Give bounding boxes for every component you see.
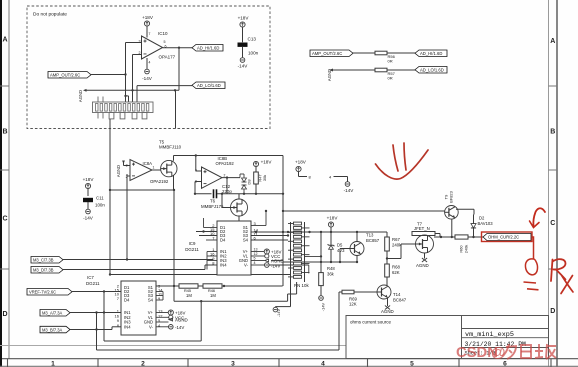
svg-text:AD_HI/1.6D: AD_HI/1.6D xyxy=(420,51,442,56)
svg-text:0R: 0R xyxy=(388,59,393,64)
svg-text:IN4: IN4 xyxy=(124,324,131,329)
svg-text:4: 4 xyxy=(149,61,151,65)
svg-text:1M: 1M xyxy=(210,293,216,298)
svg-text:IC8A: IC8A xyxy=(143,161,153,166)
svg-text:C13: C13 xyxy=(248,37,257,42)
svg-text:-14V: -14V xyxy=(83,216,94,221)
svg-text:+18V: +18V xyxy=(261,160,273,165)
svg-text:@: @ xyxy=(491,345,505,361)
svg-text:AMP_OUT/2.6C: AMP_OUT/2.6C xyxy=(312,51,342,56)
svg-text:B: B xyxy=(550,128,555,135)
svg-text:ohms current source: ohms current source xyxy=(350,320,392,325)
svg-text:AGND: AGND xyxy=(416,263,429,268)
svg-text:3: 3 xyxy=(231,361,235,367)
svg-text:30k: 30k xyxy=(262,175,267,181)
svg-text:-14V: -14V xyxy=(321,302,326,311)
svg-text:D2: D2 xyxy=(479,216,485,221)
svg-text:V-: V- xyxy=(244,263,249,268)
svg-text:OPA177: OPA177 xyxy=(159,55,176,60)
svg-text:S4: S4 xyxy=(148,298,154,303)
svg-text:+18V: +18V xyxy=(83,177,95,182)
svg-text:1M: 1M xyxy=(186,293,192,298)
svg-text:C: C xyxy=(550,220,555,227)
svg-text:D: D xyxy=(2,311,7,318)
svg-text:D8: D8 xyxy=(247,179,252,185)
svg-text:AGND: AGND xyxy=(116,165,121,177)
svg-text:S4: S4 xyxy=(243,238,249,243)
svg-text:C: C xyxy=(2,215,7,222)
svg-text:-14V: -14V xyxy=(277,309,281,317)
svg-text:4: 4 xyxy=(321,361,325,367)
svg-text:AD_LO/1.6D: AD_LO/1.6D xyxy=(420,67,444,72)
svg-text:T13: T13 xyxy=(366,233,374,238)
svg-text:vm_mini_exp5: vm_mini_exp5 xyxy=(465,331,514,339)
svg-text:+18V: +18V xyxy=(327,216,339,221)
svg-text:R48: R48 xyxy=(327,266,335,271)
svg-text:BAV103: BAV103 xyxy=(478,221,494,226)
svg-text:D5: D5 xyxy=(337,243,343,248)
svg-text:T14: T14 xyxy=(393,292,401,297)
svg-text:MMBFJ110: MMBFJ110 xyxy=(159,145,182,150)
svg-text:OPA2192: OPA2192 xyxy=(150,179,169,184)
svg-text:D4: D4 xyxy=(124,298,130,303)
svg-text:12K: 12K xyxy=(349,302,357,307)
svg-text:-14V: -14V xyxy=(271,264,280,269)
svg-text:100n: 100n xyxy=(248,51,259,56)
svg-text:3: 3 xyxy=(126,164,128,168)
svg-text:A: A xyxy=(550,38,555,45)
svg-text:1: 1 xyxy=(153,166,155,170)
svg-text:BC847: BC847 xyxy=(393,298,407,303)
svg-text:100n: 100n xyxy=(95,203,105,208)
svg-text:C11: C11 xyxy=(96,196,104,201)
svg-text:V-: V- xyxy=(149,324,154,329)
svg-text:AGND: AGND xyxy=(381,309,394,314)
svg-text:13: 13 xyxy=(254,248,258,252)
svg-text:MMBFJ175: MMBFJ175 xyxy=(201,204,224,209)
svg-text:D: D xyxy=(550,308,555,315)
svg-text:62K: 62K xyxy=(392,270,400,275)
svg-text:5: 5 xyxy=(254,257,256,261)
svg-text:-14V: -14V xyxy=(238,64,249,69)
svg-text:+18V: +18V xyxy=(142,15,154,20)
svg-text:36k: 36k xyxy=(327,272,335,277)
svg-text:1: 1 xyxy=(51,361,55,367)
svg-text:240k: 240k xyxy=(464,245,469,253)
svg-text:AGND: AGND xyxy=(78,90,83,102)
svg-text:7: 7 xyxy=(149,32,151,36)
svg-text:M3_C/7.3B: M3_C/7.3B xyxy=(33,257,54,262)
svg-text:T6: T6 xyxy=(210,199,216,204)
svg-text:IC7: IC7 xyxy=(87,275,94,280)
svg-text:VREF-7V/2.6C: VREF-7V/2.6C xyxy=(29,289,56,294)
svg-text:M3_B/7.3A: M3_B/7.3A xyxy=(42,327,63,332)
svg-text:DG211: DG211 xyxy=(185,247,199,252)
svg-text:6: 6 xyxy=(503,361,507,367)
svg-text:B: B xyxy=(2,128,7,135)
svg-text:0R: 0R xyxy=(388,76,393,81)
svg-text:12: 12 xyxy=(254,252,258,256)
svg-text:M3_D/7.3B: M3_D/7.3B xyxy=(33,267,54,272)
svg-text:JFET_N: JFET_N xyxy=(414,226,430,231)
svg-text:-14V: -14V xyxy=(175,325,184,330)
svg-text:IC10: IC10 xyxy=(158,31,168,36)
svg-text:Do not populate: Do not populate xyxy=(33,12,67,18)
svg-text:DG211: DG211 xyxy=(86,281,100,286)
svg-text:-14V: -14V xyxy=(344,188,355,193)
svg-text:M3_A/7.3A: M3_A/7.3A xyxy=(42,310,63,315)
svg-text:AD_HI/1.6D: AD_HI/1.6D xyxy=(197,45,219,50)
svg-text:AD_LO/1.6D: AD_LO/1.6D xyxy=(197,83,221,88)
svg-text:AGND: AGND xyxy=(175,318,188,323)
svg-text:BF823: BF823 xyxy=(449,190,454,203)
svg-text:+18V: +18V xyxy=(238,16,250,21)
svg-text:2: 2 xyxy=(224,174,226,178)
svg-text:D4: D4 xyxy=(220,238,226,243)
svg-text:OPA2192: OPA2192 xyxy=(216,161,235,166)
svg-text:4: 4 xyxy=(254,261,256,265)
svg-text:IN4: IN4 xyxy=(220,263,227,268)
svg-text:5: 5 xyxy=(410,361,414,367)
svg-text:OHM_CUR/2.2C: OHM_CUR/2.2C xyxy=(488,235,519,240)
svg-text:2: 2 xyxy=(141,361,145,367)
svg-text:IC9: IC9 xyxy=(189,241,196,246)
svg-text:R67: R67 xyxy=(392,237,400,242)
svg-text:A: A xyxy=(2,37,7,44)
svg-text:-14V: -14V xyxy=(142,76,153,81)
svg-text:R68: R68 xyxy=(392,265,400,270)
svg-text:+18V: +18V xyxy=(295,160,307,165)
svg-text:BC857: BC857 xyxy=(366,238,380,243)
svg-text:AMP_OUT/2.6C: AMP_OUT/2.6C xyxy=(50,72,80,77)
